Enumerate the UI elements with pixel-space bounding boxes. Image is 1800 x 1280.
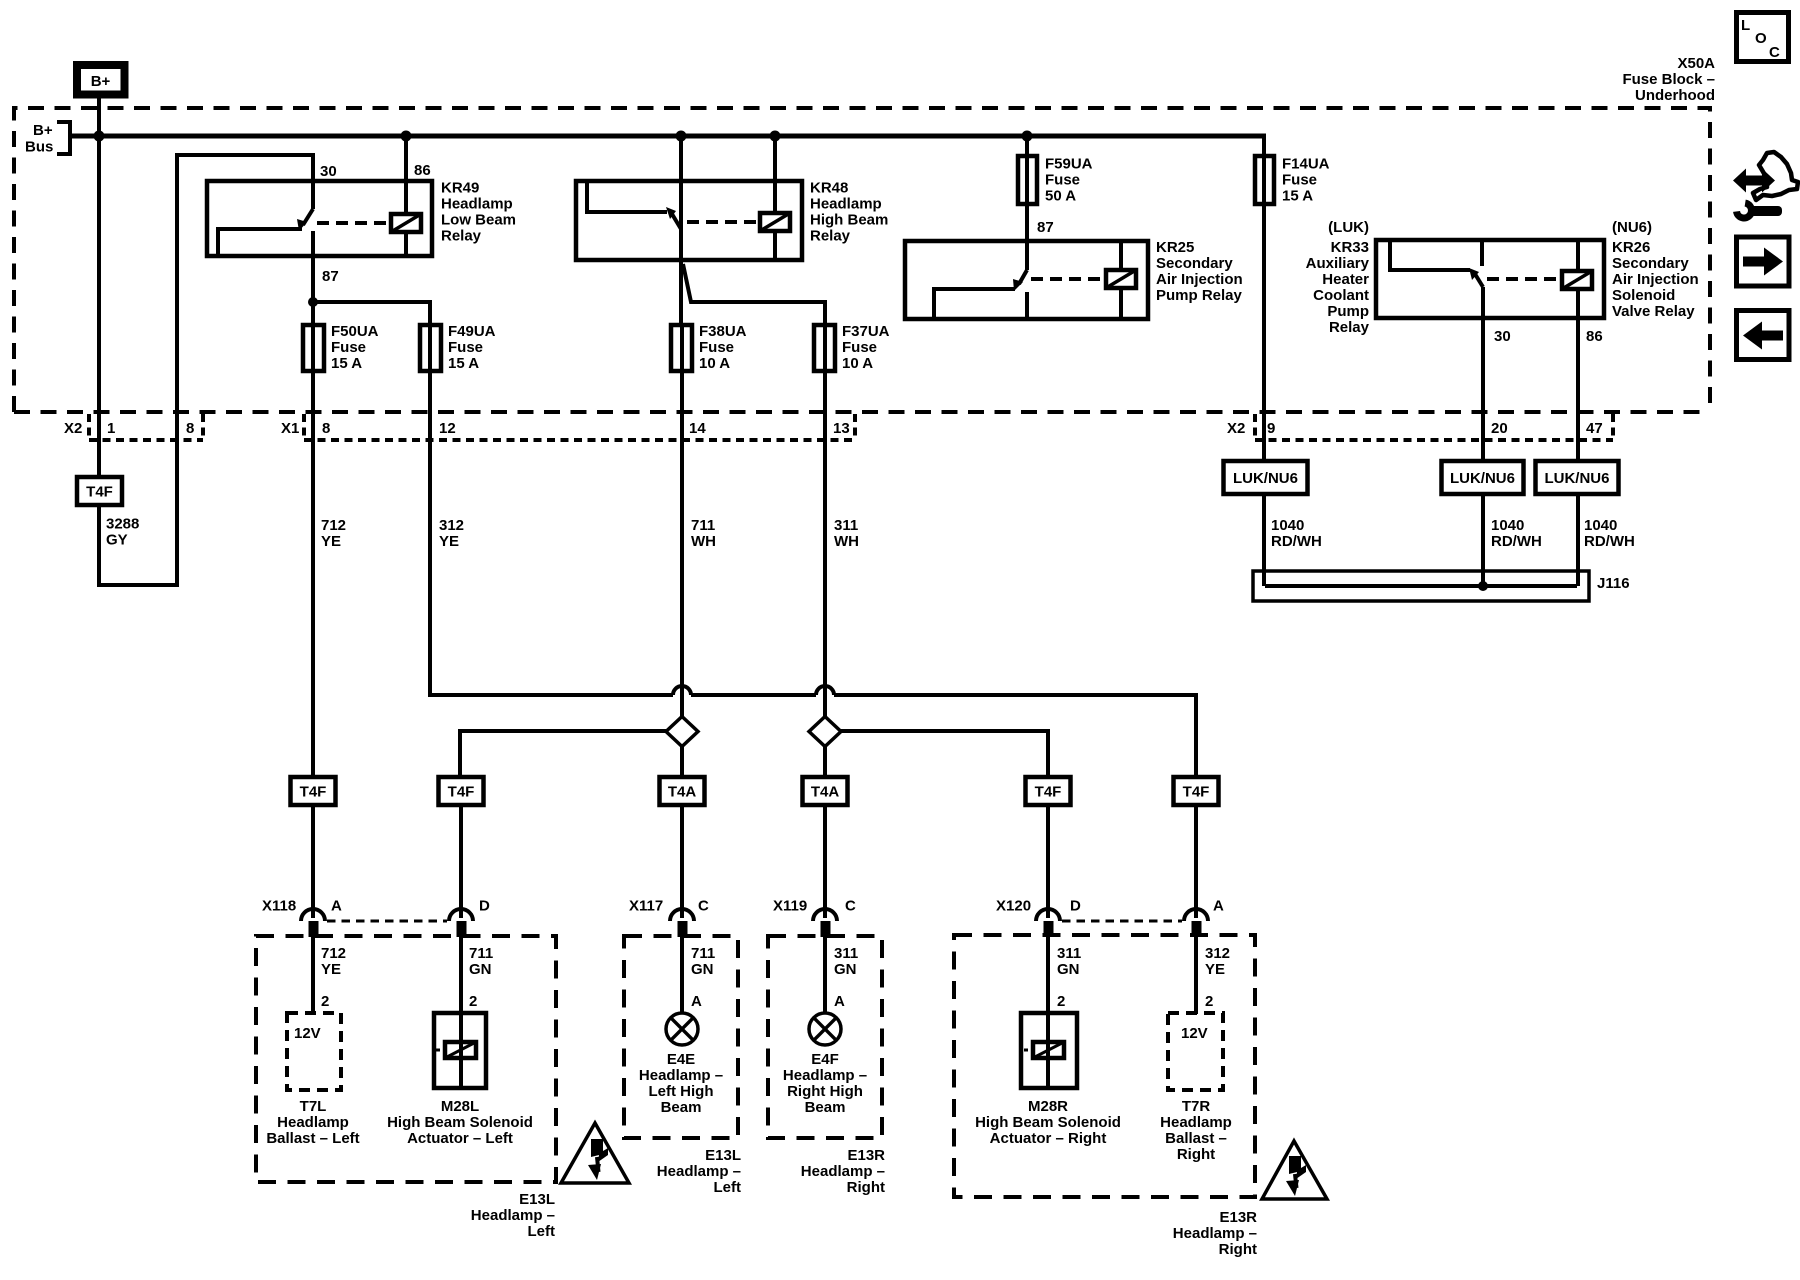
relay KR33 / KR26 Aux Heater Coolant Pump / Secondary Air Injection Solenoid Valve Relay	[1306, 239, 1699, 336]
junction on bus at B+ drop	[94, 131, 105, 142]
wire B+ bus (main feed rail)	[70, 134, 1266, 139]
wire F37UA to X1 pin 13	[823, 371, 827, 440]
KR48 switch arm	[672, 214, 681, 229]
wire 1040 RD/WH (from pin 47)	[1576, 494, 1580, 586]
splice T4F col6	[1174, 777, 1219, 805]
svg-text:X2: X2	[1227, 420, 1245, 437]
KR33 input stub from top	[1480, 242, 1484, 266]
label X50A Fuse Block Underhood	[1622, 55, 1715, 104]
svg-text:WH: WH	[691, 533, 716, 550]
separator X2b right	[1611, 414, 1615, 439]
wire F14UA to X2 pin 9	[1262, 204, 1266, 461]
svg-text:T7R: T7R	[1182, 1098, 1211, 1115]
relay KR48 Headlamp High Beam Relay	[576, 136, 888, 325]
wire KR49 87 branch to fuse F49UA	[313, 302, 430, 325]
svg-text:F38UA: F38UA	[699, 323, 747, 340]
svg-text:X119: X119	[773, 898, 807, 915]
svg-text:KR26: KR26	[1612, 239, 1650, 256]
separator X2 left	[87, 414, 91, 439]
wire T4F col5 to connector X120-D	[1046, 805, 1050, 918]
svg-text:A: A	[331, 898, 342, 915]
equipment box E13R (lamp, dashed)	[768, 936, 882, 1138]
svg-text:F59UA: F59UA	[1045, 156, 1093, 173]
lamp E4F Headlamp Right High Beam	[809, 1013, 841, 1045]
svg-text:Beam: Beam	[661, 1099, 702, 1116]
svg-text:Relay: Relay	[810, 228, 851, 245]
fuse F49UA 15A	[420, 323, 496, 372]
svg-text:GN: GN	[834, 961, 857, 978]
svg-text:Actuator – Left: Actuator – Left	[407, 1130, 513, 1147]
fuse block X50A dashed border	[14, 108, 1710, 412]
separator X2b left	[1253, 414, 1257, 439]
svg-text:47: 47	[1586, 420, 1603, 437]
svg-text:T4A: T4A	[668, 784, 697, 801]
svg-text:311: 311	[834, 945, 858, 962]
svg-text:Right: Right	[1177, 1146, 1215, 1163]
svg-text:YE: YE	[1205, 961, 1225, 978]
warning triangle (left)	[561, 1123, 629, 1183]
wire 1040 RD/WH (from pin 20)	[1481, 494, 1485, 586]
KR48 pin 87 wire	[679, 229, 683, 325]
svg-text:D: D	[479, 898, 490, 915]
svg-text:T7L: T7L	[300, 1098, 327, 1115]
ballast T7R 12V (dashed box)	[1168, 1013, 1223, 1090]
svg-text:Pump Relay: Pump Relay	[1156, 287, 1243, 304]
svg-text:1040: 1040	[1271, 517, 1304, 534]
svg-text:Left High: Left High	[649, 1083, 714, 1100]
svg-text:KR49: KR49	[441, 180, 479, 197]
connector X118 pin D	[449, 909, 473, 937]
svg-text:X117: X117	[629, 898, 663, 915]
separator X2 right	[201, 414, 205, 439]
node B+ Bus bracket	[25, 122, 70, 156]
splice T4A col3	[660, 777, 705, 805]
svg-text:Actuator – Right: Actuator – Right	[990, 1130, 1107, 1147]
svg-text:Relay: Relay	[1329, 319, 1370, 336]
wire label 711 GN	[469, 945, 493, 978]
svg-text:E13R: E13R	[1219, 1209, 1257, 1226]
wire 711 WH from X1-14	[680, 440, 684, 777]
svg-text:Right: Right	[847, 1179, 885, 1196]
svg-text:GN: GN	[469, 961, 492, 978]
warning triangle (right)	[1262, 1141, 1327, 1199]
connector LUK/NU6 (pin 20)	[1442, 461, 1524, 494]
wire label 1040 RD/WH	[1271, 517, 1322, 550]
wire label 711 WH	[691, 517, 716, 550]
label M28R High Beam Solenoid Actuator Right	[975, 1098, 1121, 1147]
svg-text:LUK/NU6: LUK/NU6	[1450, 470, 1515, 487]
connector X120 dashed gang line	[1062, 920, 1182, 923]
junction on bus at fuse F59UA feed	[1022, 131, 1033, 142]
svg-text:Fuse: Fuse	[331, 339, 366, 356]
junction on J116 bar	[1478, 581, 1488, 591]
svg-text:Valve Relay: Valve Relay	[1612, 303, 1695, 320]
KR49 pin 87 wire	[311, 231, 315, 325]
label E13L Headlamp Left (lamp box)	[657, 1147, 741, 1196]
svg-text:711: 711	[469, 945, 493, 962]
splice diamond on 711 WH	[666, 717, 698, 747]
svg-text:E13L: E13L	[705, 1147, 741, 1164]
wire F59UA to KR25 pin 87	[1025, 204, 1029, 243]
svg-text:Headlamp –: Headlamp –	[1173, 1225, 1257, 1242]
svg-text:A: A	[691, 993, 702, 1010]
svg-text:B+: B+	[91, 73, 111, 90]
svg-text:High Beam Solenoid: High Beam Solenoid	[975, 1114, 1121, 1131]
KR48 pin 30 wire from bus	[679, 136, 683, 229]
svg-text:KR25: KR25	[1156, 239, 1194, 256]
svg-text:2: 2	[1205, 993, 1213, 1010]
wire label 311 GN	[834, 945, 858, 978]
connector X117 pin C	[670, 909, 694, 937]
KR33 switch arm	[1475, 274, 1483, 287]
svg-text:Fuse: Fuse	[842, 339, 877, 356]
svg-text:15 A: 15 A	[331, 355, 362, 372]
svg-text:Low Beam: Low Beam	[441, 212, 516, 229]
svg-text:Ballast –: Ballast –	[1165, 1130, 1227, 1147]
svg-text:10 A: 10 A	[842, 355, 873, 372]
svg-text:14: 14	[689, 420, 706, 437]
splice diamond on 311 WH	[809, 717, 841, 747]
fuse F38UA 10A	[671, 323, 747, 372]
svg-text:Headlamp: Headlamp	[810, 196, 882, 213]
ground bus J116	[1253, 571, 1630, 601]
svg-text:C: C	[845, 898, 856, 915]
wire 312 YE crossover segment with hops	[673, 686, 1196, 777]
svg-text:15 A: 15 A	[448, 355, 479, 372]
connector X120 pin A	[1184, 909, 1208, 937]
KR25 switch arm	[1019, 270, 1027, 284]
icon arrow left box	[1737, 311, 1790, 360]
svg-text:B+: B+	[33, 122, 53, 139]
svg-text:Headlamp: Headlamp	[277, 1114, 349, 1131]
svg-text:Underhood: Underhood	[1635, 87, 1715, 104]
connector X118 pin A	[301, 909, 325, 937]
junction KR49 87 output branch	[308, 297, 318, 307]
KR49 fixed contact	[218, 229, 302, 254]
svg-text:Bus: Bus	[25, 139, 53, 156]
svg-text:311: 311	[1057, 945, 1081, 962]
splice T4F col5	[1026, 777, 1071, 805]
svg-text:Headlamp –: Headlamp –	[471, 1207, 555, 1224]
svg-text:High Beam Solenoid: High Beam Solenoid	[387, 1114, 533, 1131]
svg-text:Left: Left	[528, 1223, 556, 1240]
wire bus corner to fuse F14UA	[1262, 136, 1266, 156]
wire branch diamond to T4F (311)	[841, 731, 1048, 777]
wire label 712 YE	[321, 517, 346, 550]
svg-text:(LUK): (LUK)	[1328, 219, 1369, 236]
svg-text:1040: 1040	[1491, 517, 1524, 534]
svg-text:Secondary: Secondary	[1156, 255, 1233, 272]
svg-text:15 A: 15 A	[1282, 188, 1313, 205]
svg-text:M28R: M28R	[1028, 1098, 1068, 1115]
svg-text:E13L: E13L	[519, 1191, 555, 1208]
svg-text:YE: YE	[439, 533, 459, 550]
svg-text:LUK/NU6: LUK/NU6	[1233, 470, 1298, 487]
junction on bus at KR48 pin 30 feed	[676, 131, 687, 142]
svg-text:L: L	[1741, 17, 1750, 34]
battery feed B+ symbol	[77, 65, 125, 95]
svg-text:Headlamp –: Headlamp –	[801, 1163, 885, 1180]
svg-text:KR33: KR33	[1331, 239, 1369, 256]
svg-text:X50A: X50A	[1677, 55, 1715, 72]
wire label 1040 RD/WH	[1584, 517, 1635, 550]
svg-text:Coolant: Coolant	[1313, 287, 1369, 304]
svg-text:Fuse: Fuse	[699, 339, 734, 356]
wire T4A col4 to connector X119-C	[823, 805, 827, 918]
connector X120 pin D	[1036, 909, 1060, 937]
splice T4F (left feed)	[77, 477, 122, 505]
svg-text:Right High: Right High	[787, 1083, 863, 1100]
svg-text:1: 1	[107, 420, 115, 437]
svg-text:8: 8	[186, 420, 194, 437]
separator X1 right	[853, 414, 857, 439]
svg-text:712: 712	[321, 945, 346, 962]
svg-text:T4F: T4F	[1183, 784, 1210, 801]
KR25 fixed contact	[934, 289, 1015, 317]
svg-text:T4F: T4F	[448, 784, 475, 801]
wire KR33 pin 30 to X2 pin 20	[1481, 287, 1485, 461]
svg-text:312: 312	[439, 517, 464, 534]
svg-text:50 A: 50 A	[1045, 188, 1076, 205]
wire 311 WH from X1-13	[823, 440, 827, 777]
relay KR49 Headlamp Low Beam Relay	[207, 136, 516, 325]
wire label 712 YE	[321, 945, 346, 978]
svg-text:YE: YE	[321, 961, 341, 978]
svg-text:13: 13	[833, 420, 850, 437]
svg-text:E4E: E4E	[667, 1051, 695, 1068]
svg-text:(NU6): (NU6)	[1612, 219, 1652, 236]
icon navigation scribble with double arrow	[1733, 152, 1798, 219]
label E4F Headlamp Right High Beam	[783, 1051, 867, 1116]
connector LUK/NU6 (pin 9)	[1224, 461, 1308, 494]
svg-text:Fuse: Fuse	[448, 339, 483, 356]
svg-text:Auxiliary: Auxiliary	[1306, 255, 1370, 272]
svg-text:A: A	[1213, 898, 1224, 915]
equipment box E13R Headlamp Right (dashed)	[954, 935, 1255, 1197]
wire F38UA to X1 pin 14	[680, 371, 684, 440]
svg-text:Solenoid: Solenoid	[1612, 287, 1675, 304]
svg-text:Right: Right	[1219, 1241, 1257, 1258]
wire label 3288 GY	[106, 516, 139, 549]
wire 312 YE from X1-12	[430, 440, 673, 695]
KR49 actuation dashed link	[317, 221, 387, 225]
svg-text:C: C	[1769, 44, 1780, 61]
wire 311 GN inside E13R lamp box	[823, 937, 827, 1013]
wire label 312 YE	[439, 517, 464, 550]
svg-text:Beam: Beam	[805, 1099, 846, 1116]
fuse F50UA 15A	[303, 323, 379, 372]
fuse F59UA 50A	[1018, 156, 1093, 205]
wire bus to fuse F59UA	[1025, 136, 1029, 156]
svg-text:X118: X118	[262, 898, 296, 915]
svg-text:RD/WH: RD/WH	[1584, 533, 1635, 550]
junction on bus at KR48 pin 86 feed	[770, 131, 781, 142]
svg-text:Heater: Heater	[1322, 271, 1369, 288]
svg-text:E4F: E4F	[811, 1051, 839, 1068]
svg-text:Left: Left	[714, 1179, 742, 1196]
KR33 fixed contact	[1390, 242, 1470, 270]
relay KR25 Secondary Air Injection Pump Relay	[905, 239, 1243, 319]
svg-text:87: 87	[1037, 219, 1054, 236]
svg-text:12: 12	[439, 420, 456, 437]
wire splice T4F to KR49 pin 30 via X2 pin 8	[99, 155, 313, 585]
svg-text:711: 711	[691, 945, 715, 962]
wire label 711 GN	[691, 945, 715, 978]
svg-text:Headlamp: Headlamp	[441, 196, 513, 213]
KR25 pin 87 lead	[1025, 241, 1029, 270]
svg-text:12V: 12V	[1181, 1025, 1208, 1042]
svg-text:O: O	[1755, 30, 1767, 47]
svg-text:Secondary: Secondary	[1612, 255, 1689, 272]
svg-text:KR48: KR48	[810, 180, 848, 197]
svg-text:8: 8	[322, 420, 330, 437]
wire 712 YE from X1-8 to T4F	[311, 440, 315, 777]
svg-text:Pump: Pump	[1327, 303, 1369, 320]
wire T4A col3 to connector X117-C	[680, 805, 684, 918]
svg-text:Headlamp –: Headlamp –	[639, 1067, 723, 1084]
svg-text:RD/WH: RD/WH	[1491, 533, 1542, 550]
splice T4F col2	[439, 777, 484, 805]
svg-text:F14UA: F14UA	[1282, 156, 1330, 173]
equipment box E13L (lamp, dashed)	[624, 936, 738, 1138]
wire B+ box to splice T4F	[97, 94, 101, 477]
svg-text:Headlamp: Headlamp	[1160, 1114, 1232, 1131]
svg-text:T4F: T4F	[1035, 784, 1062, 801]
svg-text:J116: J116	[1597, 575, 1630, 592]
svg-text:WH: WH	[834, 533, 859, 550]
svg-text:2: 2	[1057, 993, 1065, 1010]
ballast T7L 12V (dashed box)	[287, 1013, 341, 1090]
svg-text:F49UA: F49UA	[448, 323, 496, 340]
svg-text:712: 712	[321, 517, 346, 534]
wire T4F col1 to connector X118-A	[311, 805, 315, 918]
KR25 contact output stub	[1025, 292, 1029, 317]
wire label 312 YE	[1205, 945, 1230, 978]
wire label 311 WH	[834, 517, 859, 550]
wire 1040 RD/WH (from pin 9)	[1262, 494, 1266, 586]
junction on bus at KR49 pin 86 feed	[401, 131, 412, 142]
label E13L Headlamp Left (big box)	[471, 1191, 555, 1240]
svg-text:2: 2	[469, 993, 477, 1010]
actuator M28L High Beam Solenoid	[434, 1013, 486, 1088]
svg-text:GN: GN	[691, 961, 714, 978]
svg-text:9: 9	[1267, 420, 1275, 437]
KR49 pin 86 wire from bus	[404, 136, 408, 214]
label T7L Headlamp Ballast Left	[266, 1098, 359, 1147]
wire KR48 87 branch to fuse F37UA	[683, 264, 825, 325]
svg-text:X1: X1	[281, 420, 299, 437]
KR48 actuation dashed link	[687, 220, 757, 224]
svg-text:YE: YE	[321, 533, 341, 550]
KR48 fixed contact	[587, 183, 667, 212]
svg-text:20: 20	[1491, 420, 1508, 437]
svg-text:High Beam: High Beam	[810, 212, 888, 229]
svg-text:C: C	[698, 898, 709, 915]
label E4E Headlamp Left High Beam	[639, 1051, 723, 1116]
svg-text:GY: GY	[106, 532, 128, 549]
svg-text:X120: X120	[996, 898, 1031, 915]
wire F49UA to X1 pin 12	[428, 371, 432, 440]
svg-text:Headlamp –: Headlamp –	[657, 1163, 741, 1180]
KR49 coil	[391, 214, 421, 232]
connector X119 pin C	[813, 909, 837, 937]
svg-text:F50UA: F50UA	[331, 323, 379, 340]
separator X1 left	[302, 414, 306, 439]
wire 311 GN inside E13R	[1046, 937, 1050, 1013]
svg-text:Relay: Relay	[441, 228, 482, 245]
svg-text:30: 30	[1494, 328, 1511, 345]
label E13R Headlamp Right (lamp box)	[801, 1147, 885, 1196]
KR49 pin 30 lead	[311, 181, 315, 209]
connector row strip (dense dashed)	[89, 414, 1613, 440]
wire 312 YE inside E13R	[1194, 937, 1198, 1014]
icon LOC box	[1737, 13, 1789, 62]
splice T4A col4	[803, 777, 848, 805]
KR49 switch arm	[303, 209, 313, 225]
fuse F14UA 15A	[1255, 156, 1330, 205]
KR48 pin 86 wire from bus	[773, 136, 777, 213]
label E13R Headlamp Right (big box)	[1173, 1209, 1257, 1258]
wire 712 YE inside E13L	[311, 937, 315, 1013]
wire 711 GN inside E13L	[459, 937, 463, 1013]
wire T4F col2 to connector X118-D	[459, 805, 463, 918]
svg-text:711: 711	[691, 517, 715, 534]
svg-text:86: 86	[1586, 328, 1603, 345]
svg-text:RD/WH: RD/WH	[1271, 533, 1322, 550]
svg-text:312: 312	[1205, 945, 1230, 962]
svg-text:Fuse: Fuse	[1045, 172, 1080, 189]
wire KR26 pin 86 to X2 pin 47	[1576, 316, 1580, 461]
connector X118 dashed gang line	[327, 920, 447, 923]
svg-text:Air Injection: Air Injection	[1156, 271, 1243, 288]
label T7R Headlamp Ballast Right	[1160, 1098, 1232, 1163]
wire branch diamond to T4F (711)	[460, 731, 666, 777]
wire 711 GN inside E13L lamp box	[680, 937, 684, 1013]
splice T4F col1	[291, 777, 336, 805]
equipment box E13L Headlamp Left (dashed)	[256, 936, 556, 1182]
icon arrow right box	[1737, 237, 1790, 286]
svg-text:86: 86	[414, 162, 431, 179]
svg-text:Ballast – Left: Ballast – Left	[266, 1130, 359, 1147]
KR25 actuation dashed link	[1031, 277, 1103, 281]
svg-text:Fuse Block –: Fuse Block –	[1622, 71, 1715, 88]
svg-text:F37UA: F37UA	[842, 323, 890, 340]
wire T4F col6 to connector X120-A	[1194, 805, 1198, 918]
wire F50UA to X1 pin 8	[311, 371, 315, 440]
svg-text:Air Injection: Air Injection	[1612, 271, 1699, 288]
svg-text:M28L: M28L	[441, 1098, 479, 1115]
svg-text:Fuse: Fuse	[1282, 172, 1317, 189]
svg-text:GN: GN	[1057, 961, 1080, 978]
svg-text:2: 2	[321, 993, 329, 1010]
svg-text:1040: 1040	[1584, 517, 1617, 534]
svg-text:12V: 12V	[294, 1025, 321, 1042]
svg-text:X2: X2	[64, 420, 82, 437]
KR33 actuation dashed link	[1487, 277, 1557, 281]
svg-text:10 A: 10 A	[699, 355, 730, 372]
svg-text:LUK/NU6: LUK/NU6	[1544, 470, 1609, 487]
KR48 coil	[760, 213, 790, 231]
svg-text:T4F: T4F	[300, 784, 327, 801]
svg-text:E13R: E13R	[847, 1147, 885, 1164]
svg-text:T4A: T4A	[811, 784, 840, 801]
actuator M28R High Beam Solenoid	[1021, 1013, 1077, 1088]
svg-text:T4F: T4F	[86, 484, 113, 501]
KR33 coil	[1562, 242, 1592, 316]
label M28L High Beam Solenoid Actuator Left	[387, 1098, 533, 1147]
KR25 coil	[1106, 243, 1136, 317]
connector LUK/NU6 (pin 47)	[1536, 461, 1619, 494]
